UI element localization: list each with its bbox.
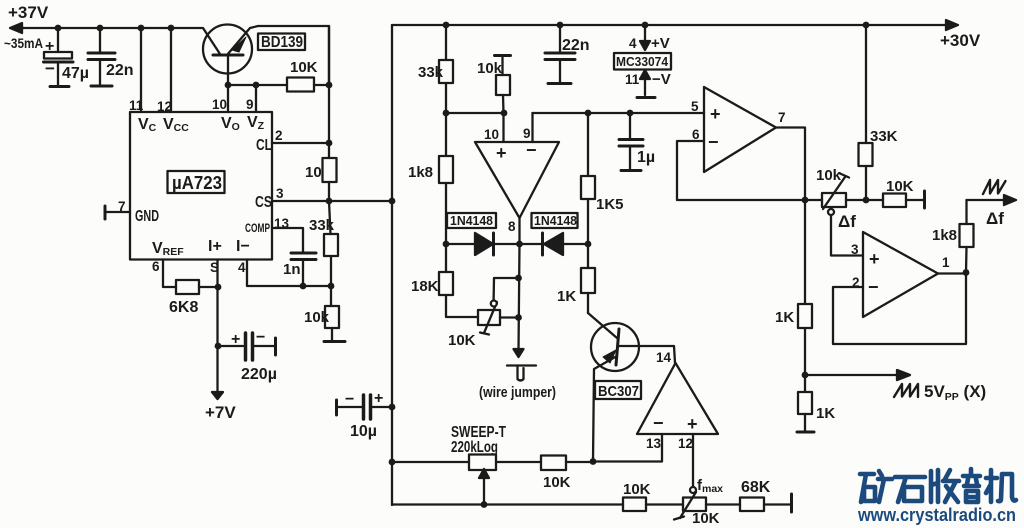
wire pin12 [692, 434, 694, 487]
svg-text:COMP: COMP [245, 221, 270, 235]
node dots [55, 25, 62, 32]
svg-text:22n: 22n [106, 62, 134, 79]
svg-text:10K: 10K [886, 178, 914, 195]
power block MC33074 [614, 25, 671, 98]
svg-text:10k: 10k [304, 309, 330, 326]
capacitor 10u [337, 395, 393, 419]
resistor 10K (sweep to pin13) [541, 456, 566, 471]
node +37V input arrow [12, 27, 24, 29]
svg-text:Δf: Δf [838, 212, 856, 231]
wire pin9 stub [255, 85, 257, 112]
potentiometer SWEEP-T 220klog [469, 455, 496, 505]
resistor 1K (emitter) [581, 244, 595, 313]
svg-text:10K: 10K [448, 332, 476, 349]
wire jumper symbol [507, 366, 536, 381]
potentiometer 10k delta-f [805, 174, 866, 210]
sawtooth glyph delta-f [983, 180, 1006, 194]
wire pin5 column to +7V arrow [216, 260, 218, 395]
svg-text:MC33074: MC33074 [616, 54, 669, 69]
svg-text:1K: 1K [775, 309, 794, 326]
potentiometer 10K (symmetry) [478, 302, 519, 335]
svg-text:7: 7 [118, 199, 126, 214]
svg-text:+: + [374, 390, 383, 407]
resistor 1k8 [439, 156, 453, 244]
svg-text:+: + [710, 104, 721, 124]
wire inverting feedback rail y113 [533, 112, 705, 114]
svg-text:−: − [256, 329, 265, 346]
svg-text:10K: 10K [543, 474, 571, 491]
char ji [986, 470, 1016, 502]
potentiometer fmax 10K [674, 492, 706, 520]
svg-text:33k: 33k [418, 64, 444, 81]
capacitor 1n on COMP [272, 228, 316, 286]
wire output column x330 [328, 26, 330, 158]
svg-text:1k8: 1k8 [408, 164, 433, 181]
svg-text:4: 4 [238, 260, 246, 275]
resistor 33K (CS divider) [324, 201, 338, 286]
svg-text:3: 3 [851, 242, 859, 257]
capacitor 47u [44, 28, 74, 87]
svg-text:CL: CL [256, 137, 272, 154]
capacitor 22n (input) [88, 28, 115, 86]
svg-text:−: − [526, 140, 537, 160]
wire +30V top rail [392, 24, 953, 26]
resistor 10 (current sense) [323, 158, 337, 182]
op-amp U2A (pins 10,9,8) [475, 142, 559, 218]
resistor 68K [740, 498, 764, 512]
resistor 10k with top terminal [495, 56, 511, 114]
svg-text:1N4148: 1N4148 [534, 213, 577, 228]
svg-text:10k: 10k [816, 167, 842, 184]
svg-text:10k: 10k [477, 60, 503, 77]
sawtooth glyph 5Vpp [894, 384, 918, 397]
svg-text:(wire jumper): (wire jumper) [479, 384, 556, 401]
svg-text:1N4148: 1N4148 [450, 213, 493, 228]
svg-text:BD139: BD139 [261, 34, 303, 51]
resistor 10k to ground [324, 286, 345, 342]
right text labels [775, 128, 1004, 422]
svg-text:S: S [210, 260, 219, 275]
svg-text:220kLog: 220kLog [451, 439, 498, 456]
svg-text:−: − [45, 59, 55, 78]
wire wiper delta-f down to pin3 [830, 208, 832, 210]
svg-text:1K5: 1K5 [596, 196, 624, 213]
resistor 10K (bottom rail) [623, 498, 646, 512]
wire wiper to pin8 node [494, 278, 519, 306]
resistor 10K (Vz to output) [256, 78, 329, 92]
svg-text:33K: 33K [870, 128, 898, 145]
svg-text:CS: CS [255, 194, 272, 211]
svg-text:13: 13 [274, 216, 290, 231]
node +30V arrow [946, 20, 958, 30]
resistor 6K8 [176, 280, 199, 294]
svg-text:6: 6 [692, 127, 700, 142]
wire emitter to 10K row [258, 26, 329, 85]
svg-text:1n: 1n [283, 261, 301, 278]
svg-text:+V: +V [651, 35, 670, 52]
resistor 1K upper divider [798, 200, 812, 392]
op-amp U2B (pins 5,6,7) [704, 87, 776, 172]
svg-text:4: 4 [629, 36, 637, 51]
char shi [895, 477, 925, 502]
char shou [931, 470, 959, 502]
ground terminal pin7 [105, 206, 130, 219]
wire pin7 output [776, 128, 805, 201]
svg-text:6: 6 [152, 259, 160, 274]
svg-text:6K8: 6K8 [169, 299, 198, 316]
svg-text:www.crystalradio.cn: www.crystalradio.cn [857, 505, 1016, 525]
svg-text:+7V: +7V [205, 403, 236, 422]
svg-text:10: 10 [484, 127, 499, 142]
wire +37V rail [12, 28, 220, 54]
svg-text:12: 12 [678, 436, 693, 451]
svg-text:2: 2 [852, 275, 860, 290]
svg-text:18K: 18K [411, 278, 439, 295]
wire pin8 column down to jumper arrow [519, 244, 520, 351]
resistor 10K (to terminal) [866, 191, 925, 208]
svg-text:−: − [868, 277, 879, 297]
IC U1 uA723 body [130, 112, 272, 260]
svg-text:9: 9 [246, 97, 254, 112]
node 5Vpp output arrow [805, 374, 904, 376]
svg-text:+37V: +37V [8, 3, 49, 22]
wire pin12 stub [170, 28, 172, 112]
svg-text:33k: 33k [309, 217, 335, 234]
wire main vertical feed x392 [391, 25, 393, 505]
svg-text:−: − [345, 391, 354, 408]
svg-text:+: + [496, 143, 507, 163]
svg-text:1K: 1K [557, 288, 576, 305]
svg-text:22n: 22n [562, 37, 590, 54]
terminal bottom-rail end [790, 494, 793, 512]
svg-text:Δf: Δf [986, 209, 1004, 228]
op-amp U2C (pins 3,2,1) [863, 232, 938, 317]
svg-text:GND: GND [135, 208, 159, 225]
svg-text:−V: −V [652, 71, 671, 88]
resistor 1k8 (delta-f out) [960, 200, 974, 273]
transistor Q2 BC307 [591, 323, 675, 462]
svg-text:+: + [231, 331, 240, 348]
wire pin4 row [247, 260, 331, 287]
svg-text:10K: 10K [623, 481, 651, 498]
wire sweep row y462 [392, 461, 469, 463]
svg-text:+: + [869, 249, 880, 269]
capacitor 22n (supply) [545, 25, 575, 84]
wire CS [272, 200, 392, 202]
svg-text:−: − [708, 132, 719, 152]
watermark crystalradio logo [857, 469, 1016, 525]
wire pin9 stub [531, 113, 533, 142]
svg-text:BC307: BC307 [598, 383, 639, 400]
svg-text:1k8: 1k8 [932, 227, 957, 244]
middle text labels [345, 31, 981, 527]
svg-text:14: 14 [656, 350, 672, 365]
resistor 33K (to +30V) [859, 25, 873, 200]
svg-text:3: 3 [276, 186, 284, 201]
svg-text:~35mA: ~35mA [4, 36, 43, 51]
label box 1N4148 left [447, 213, 496, 228]
wire CL [272, 142, 329, 144]
svg-text:−: − [653, 413, 664, 433]
label box BD139 [258, 34, 305, 51]
wire pin11 stub [140, 28, 142, 112]
resistor 18K [439, 244, 478, 317]
char kuang [860, 471, 892, 502]
svg-text:1: 1 [942, 255, 950, 270]
svg-text:9: 9 [523, 126, 531, 141]
wire pin6 stub [163, 260, 176, 288]
svg-text:µA723: µA723 [172, 173, 222, 193]
wire bottom rail [392, 503, 623, 505]
label box BC307 [595, 381, 641, 399]
label box 1N4148 right [532, 213, 578, 228]
diode D2 1N4148 [543, 233, 589, 255]
wire to non-inverting input [446, 112, 504, 114]
capacitor 220u [218, 333, 276, 360]
svg-text:10K: 10K [692, 510, 720, 527]
svg-text:10K: 10K [290, 59, 318, 76]
svg-text:47µ: 47µ [62, 65, 89, 82]
svg-text:10µ: 10µ [350, 423, 377, 440]
resistor 33k (top of timing column) [439, 25, 453, 156]
diode D1 1N4148 [446, 233, 542, 255]
wire pin10 stub [227, 85, 229, 112]
wire pin1 output [938, 272, 966, 274]
svg-text:+: + [687, 414, 698, 434]
svg-text:10: 10 [212, 97, 227, 112]
svg-text:I−: I− [236, 238, 250, 255]
char yin [963, 469, 980, 502]
svg-text:220µ: 220µ [241, 366, 277, 383]
wire BC307 collector from 1K [588, 313, 617, 338]
wire pin13 [593, 434, 662, 462]
svg-text:1µ: 1µ [637, 149, 655, 166]
op-amp U2D (pins 14,13,12) [637, 363, 718, 434]
svg-text:8: 8 [508, 219, 516, 234]
wire pin8 stub [518, 218, 520, 244]
wire pin2 feedback loop [833, 273, 966, 345]
svg-text:+30V: +30V [940, 31, 981, 50]
svg-text:I+: I+ [208, 238, 222, 255]
svg-text:11: 11 [129, 98, 144, 113]
transistor Q1 BD139 [203, 25, 258, 86]
wire pin10 stub opamp1 [502, 113, 504, 142]
svg-text:68K: 68K [741, 479, 771, 496]
svg-text:13: 13 [646, 436, 662, 451]
resistor 1K lower divider [797, 392, 814, 432]
resistor 1K5 [581, 113, 595, 244]
wire base tie [228, 84, 256, 86]
svg-text:7: 7 [778, 110, 786, 125]
text labels left section [4, 3, 335, 422]
svg-text:+: + [45, 38, 54, 55]
svg-text:12: 12 [157, 99, 172, 114]
svg-text:10: 10 [305, 164, 322, 181]
node delta-f output arrow [967, 199, 1012, 201]
wire pin6 feedback [677, 141, 805, 200]
svg-text:11: 11 [625, 72, 640, 87]
svg-text:2: 2 [275, 128, 283, 143]
svg-text:5: 5 [691, 99, 699, 114]
capacitor 1u [619, 113, 643, 171]
svg-text:1K: 1K [816, 405, 835, 422]
